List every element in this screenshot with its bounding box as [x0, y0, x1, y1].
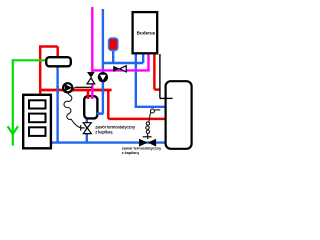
svg-text:z kapilarą: z kapilarą [122, 150, 140, 155]
svg-text:z kapilarą: z kapilarą [95, 129, 113, 134]
svg-text:Buderus: Buderus [137, 30, 156, 35]
